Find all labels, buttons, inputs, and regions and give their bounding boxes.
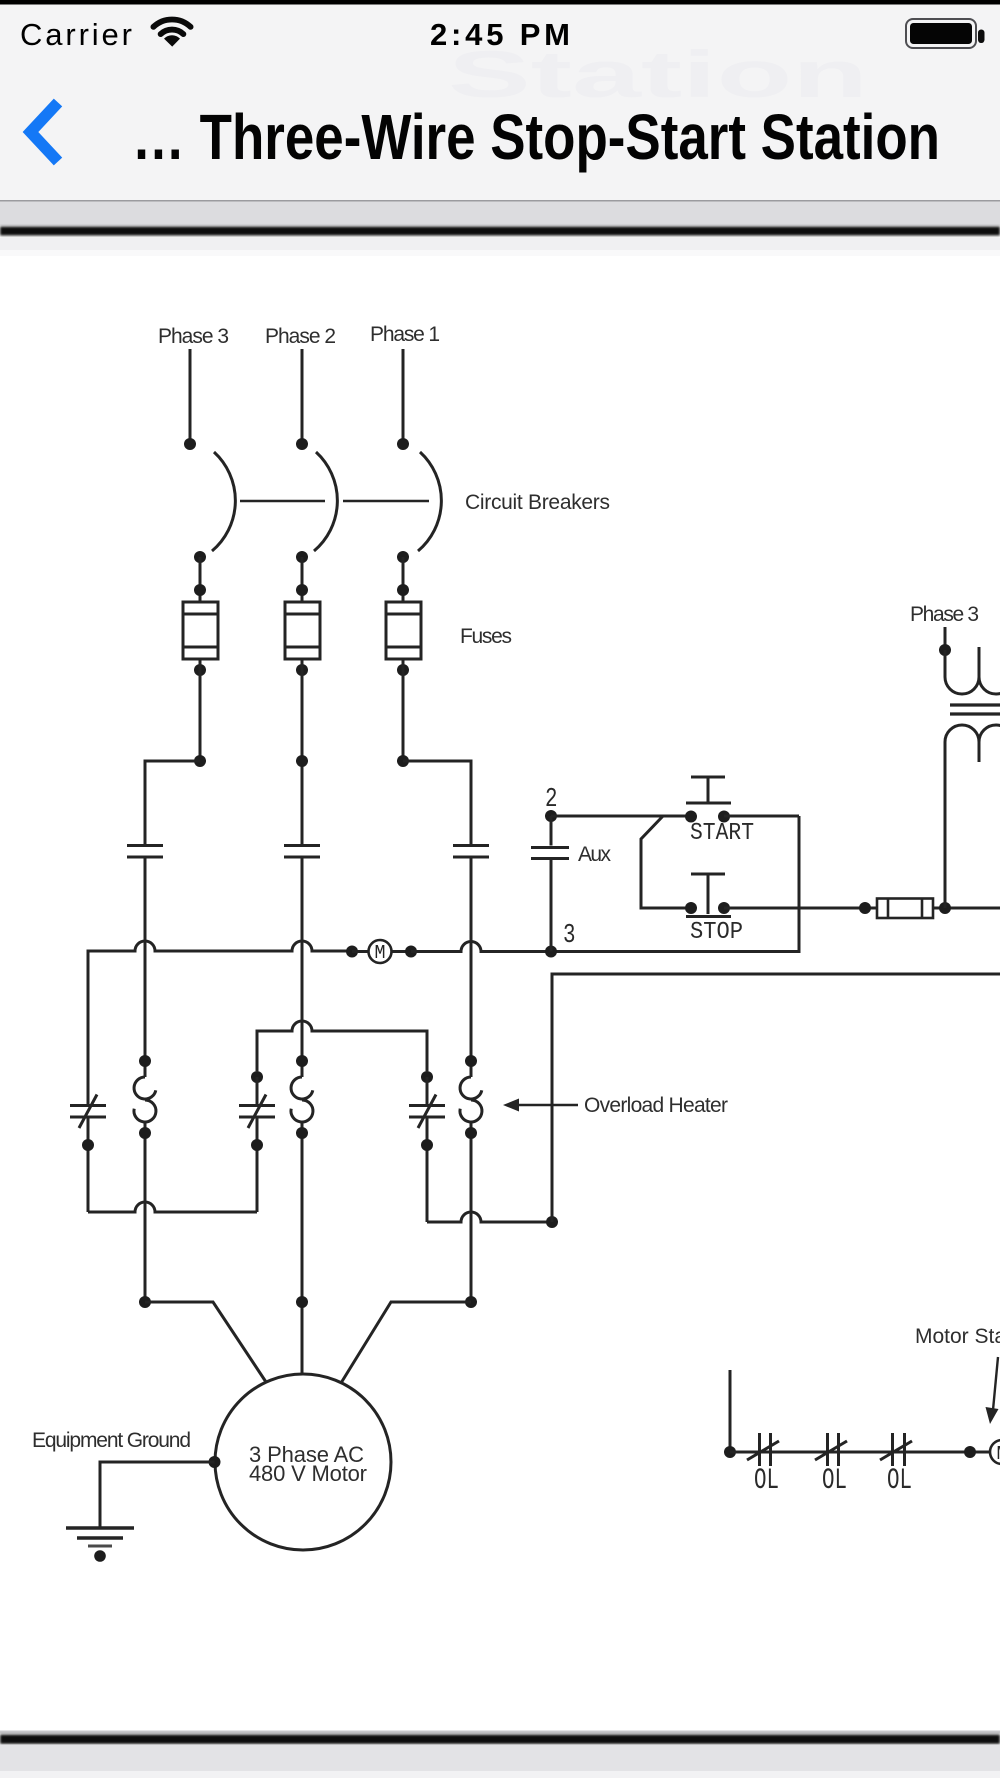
ground symbol — [66, 1526, 134, 1530]
svg-text:Phase 1: Phase 1 — [370, 323, 440, 346]
motor starter coil M (clipped) — [990, 1440, 1000, 1464]
wire phase1 breaker to fuse — [402, 557, 405, 602]
node OL1 slash bottom — [421, 1139, 433, 1151]
node phase1 fuse bottom — [397, 664, 409, 676]
pushbutton STOP plunger — [691, 873, 725, 876]
aux contact M (holding) — [531, 846, 569, 849]
pushbutton START plunger — [691, 776, 725, 779]
svg-text:Phase 3: Phase 3 — [910, 603, 979, 626]
circuit breaker CB2 arc — [314, 452, 337, 551]
wire OL1 bottom link (y=1222) hop over coil branch — [427, 1212, 552, 1222]
nav hairline — [0, 200, 1000, 202]
arrow to overload heater — [513, 1104, 578, 1106]
node OL return junction — [546, 1216, 558, 1228]
svg-text:480 V Motor: 480 V Motor — [249, 1461, 367, 1486]
wire ground lead — [100, 1462, 215, 1528]
node phase2 fuse bottom — [296, 664, 308, 676]
svg-text:OL: OL — [822, 1464, 847, 1498]
wire OL3 bottom link (y=1212) hop over coil branch — [88, 1202, 257, 1212]
wire phase2 fuse to contact — [301, 659, 304, 845]
gray band under nav — [0, 202, 1000, 226]
wire node2 to START — [551, 815, 691, 818]
svg-text:OL: OL — [887, 1464, 912, 1498]
node equipment ground tap — [209, 1456, 221, 1468]
node motor lead phase2 — [296, 1296, 308, 1308]
node phase1 breaker bottom — [397, 551, 409, 563]
node OL3 slash bottom — [82, 1139, 94, 1151]
bottom gray area — [0, 1745, 1000, 1778]
svg-text:2:45 PM: 2:45 PM — [430, 17, 570, 52]
node transformer secondary tap — [939, 902, 951, 914]
node phase3 fuse bottom — [194, 664, 206, 676]
wire phase1 contact down to OL coil — [470, 857, 473, 1077]
wire branch diagonal to STOP row — [641, 816, 691, 908]
svg-text:OL: OL — [754, 1464, 779, 1498]
wifi icon — [153, 19, 190, 34]
wire phase 3 drop from label — [189, 349, 192, 444]
node STOP right — [718, 902, 730, 914]
node control fuse left — [859, 902, 871, 914]
contactor M contact phase1 — [453, 844, 489, 847]
wire STOP right to control fuse — [724, 907, 877, 910]
wire START right to rail — [724, 815, 799, 818]
OL contact 2 — [826, 1433, 829, 1466]
fuse F1 body — [386, 602, 421, 659]
wire control rung — [730, 1451, 990, 1454]
wire motor lead phase3 — [145, 1302, 266, 1382]
top black strip — [0, 0, 1000, 5]
node phase2 breaker top — [296, 438, 308, 450]
status + nav bar background — [0, 0, 1000, 200]
top black page border band — [0, 227, 1000, 236]
OL heater phase2: slash element branch — [251, 1071, 263, 1083]
svg-text:STOP: STOP — [690, 919, 743, 946]
wire OL return riser and line 3 feed (y=974) — [552, 974, 1000, 1222]
svg-text:Equipment Ground: Equipment Ground — [32, 1429, 191, 1452]
node control rung left — [724, 1446, 736, 1458]
control transformer primary winding — [945, 650, 1000, 694]
wire phase 1 drop from label — [402, 349, 405, 444]
svg-text:Aux: Aux — [578, 843, 612, 866]
OL heater phase1: coil branch — [465, 1055, 477, 1067]
node phase3 breaker top — [184, 438, 196, 450]
svg-text:Fuses: Fuses — [460, 625, 512, 648]
node OL2 slash bottom — [251, 1139, 263, 1151]
wire phase3 breaker to fuse — [199, 557, 202, 602]
wire phase3 jog left — [145, 761, 200, 845]
node phase2 breaker bottom — [296, 551, 308, 563]
control fuse body — [877, 899, 933, 919]
circuit breaker CB3 arc — [212, 452, 235, 551]
node phase2 fuse top — [296, 584, 308, 596]
breaker gang tie bar CB2-CB1 — [343, 500, 429, 503]
svg-text:Motor Starte: Motor Starte — [915, 1325, 1000, 1348]
node phase2 jog — [296, 755, 308, 767]
node motor lead phase3 — [139, 1296, 151, 1308]
motor body circle — [215, 1374, 391, 1550]
contactor M contact phase3 — [127, 844, 163, 847]
OL contact 3 — [891, 1433, 894, 1466]
soft gray shade under band — [0, 238, 1000, 250]
bus wire with M coil (y=951) hops over phase lines — [88, 941, 352, 1105]
wire OL2 top feed link (y=1031) hop over phase2 — [257, 1021, 427, 1071]
node control rung right — [964, 1446, 976, 1458]
node M coil right — [405, 946, 417, 958]
wire phase3 contact down through hops to OL coil — [144, 857, 147, 1077]
OL heater phase2: coil branch — [296, 1055, 308, 1067]
wire M coil to node — [392, 950, 412, 953]
node phase1 jog — [397, 755, 409, 767]
svg-text:START: START — [690, 820, 754, 847]
svg-text:Phase 3: Phase 3 — [158, 325, 229, 348]
node phase1 fuse top — [397, 584, 409, 596]
wire control fuse to transformer secondary — [933, 907, 1000, 910]
node START right — [718, 811, 730, 823]
wire phase2 breaker to fuse — [301, 557, 304, 602]
breaker gang tie bar CB3-CB2 — [240, 500, 325, 503]
node phase3 breaker bottom — [194, 551, 206, 563]
fuse F3 body — [183, 602, 218, 659]
node START left — [685, 811, 697, 823]
node 3 junction on bus — [545, 946, 557, 958]
battery icon — [906, 19, 976, 48]
wire motor lead phase1 — [341, 1302, 471, 1383]
svg-text:3: 3 — [563, 921, 576, 951]
contactor M contact phase2 — [284, 844, 320, 847]
node phase3 jog — [194, 755, 206, 767]
OL heater phase1: slash element branch — [421, 1071, 433, 1083]
svg-text:… Three-Wire Stop-Start Statio: … Three-Wire Stop-Start Station — [132, 101, 940, 173]
wire phase1 fuse to jog — [402, 659, 405, 761]
control transformer core — [950, 703, 1000, 706]
OL heater phase3: coil branch — [139, 1055, 151, 1067]
wire to M coil — [352, 950, 369, 953]
fuse F2 body — [285, 602, 320, 659]
contactor coil M — [369, 940, 392, 963]
OL contact 1 — [758, 1433, 761, 1466]
node phase1 breaker top — [397, 438, 409, 450]
svg-text:Phase 2: Phase 2 — [265, 325, 336, 348]
wire aux branch node2 down — [550, 816, 553, 846]
svg-text:M: M — [375, 942, 386, 964]
node phase3 fuse top — [194, 584, 206, 596]
node M coil left — [346, 946, 358, 958]
wire aux to node3 — [550, 859, 553, 952]
svg-text:Overload Heater: Overload Heater — [584, 1094, 728, 1117]
svg-text:Circuit Breakers: Circuit Breakers — [465, 491, 610, 514]
wire phase2 contact down to OL coil — [301, 857, 304, 1077]
circuit breaker CB1 arc — [418, 452, 441, 551]
wire phase1 jog right — [403, 761, 471, 845]
OL heater phase3: slash element branch — [70, 1104, 106, 1107]
node STOP left — [685, 902, 697, 914]
wire transformer primary drop — [944, 627, 947, 660]
bottom black page border band — [0, 1731, 1000, 1734]
wire phase3 fuse to jog — [199, 659, 202, 761]
svg-text:M: M — [997, 1443, 1000, 1465]
STOP bridge bar — [686, 915, 731, 918]
control transformer secondary winding — [945, 725, 1000, 908]
node 2 junction — [545, 810, 557, 822]
back chevron — [31, 103, 59, 162]
wire control rung riser — [729, 1370, 732, 1452]
node transformer primary — [939, 644, 951, 656]
arrow to motor starter coil (clipped) — [993, 1357, 998, 1410]
wire phase 2 drop from label — [301, 349, 304, 444]
node motor lead phase1 — [465, 1296, 477, 1308]
bus wire node to right rail with hop over phase1 — [411, 816, 799, 952]
